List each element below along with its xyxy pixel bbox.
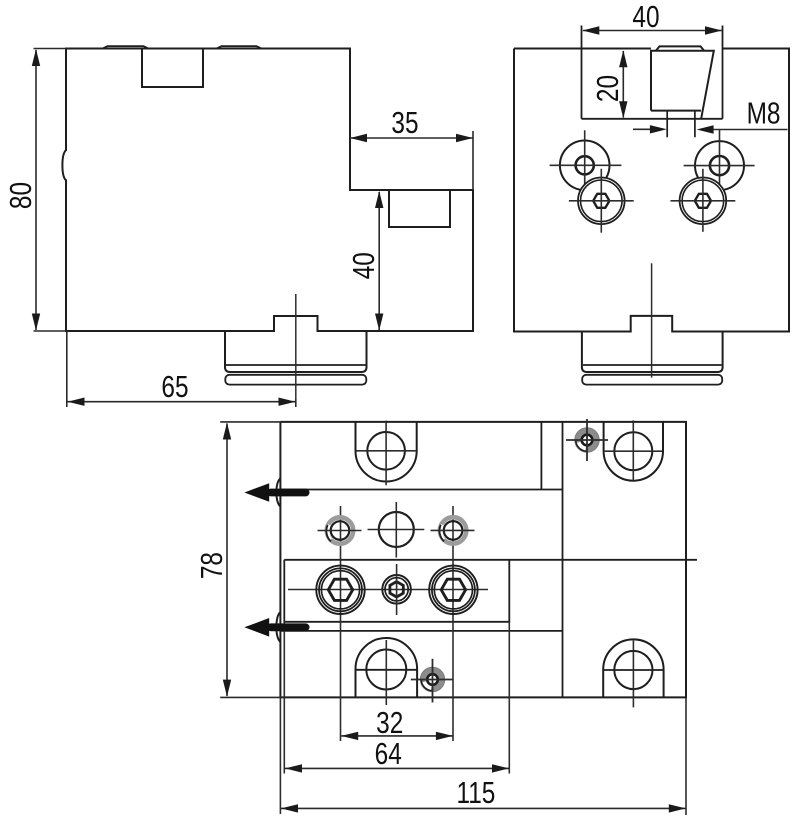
M8 stud edges: [667, 111, 695, 138]
dimension 64: [285, 736, 509, 772]
dimension 40 (top of right view): [582, 0, 722, 35]
svg-text:40: 40: [346, 252, 380, 279]
dimension 35 (top right of left view): [350, 105, 473, 190]
body outline left view: [62, 49, 473, 332]
lower-left socket screw: [569, 169, 634, 233]
small port c3 (gray ring): [431, 517, 475, 543]
big port b2 (center): [382, 564, 411, 615]
right slot: [389, 190, 450, 227]
gray pin top: [566, 419, 608, 461]
gray pin bottom: [411, 659, 453, 703]
top gasket bump 2: [217, 46, 261, 48]
dimension 32: [341, 705, 453, 740]
svg-text:80: 80: [3, 182, 37, 209]
svg-text:35: 35: [391, 105, 418, 139]
dimension 20 (coil depth): [590, 50, 627, 118]
coil cap: [656, 46, 704, 50]
svg-text:40: 40: [632, 0, 659, 34]
solenoid pocket left wall: [581, 26, 583, 119]
coil body: [651, 51, 714, 119]
dimension 78: [194, 422, 280, 698]
big port b1: [316, 566, 364, 614]
inner vertical full: [562, 422, 564, 698]
small port c1 (gray ring): [318, 517, 362, 543]
upper-right port circle: [684, 130, 755, 201]
bottom view outer rectangle: [276, 422, 686, 698]
center band: [284, 560, 509, 622]
lower-right socket screw: [671, 169, 736, 232]
centerline: [295, 294, 297, 399]
upper-left port circle: [550, 130, 622, 200]
boss bottom cap right: [582, 375, 722, 385]
dimension 40 (left view right): [346, 191, 383, 331]
bottom-center arch boss: [356, 638, 418, 705]
dimension 80 (left): [3, 49, 66, 332]
svg-text:32: 32: [376, 705, 403, 739]
solenoid pocket floor: [582, 118, 723, 120]
top gasket bump 1: [103, 46, 148, 48]
svg-text:78: 78: [194, 552, 228, 579]
svg-text:64: 64: [375, 736, 402, 770]
boss bottom cap: [225, 375, 366, 385]
small port c2: [368, 502, 425, 558]
top-center mounting ear: [356, 421, 417, 486]
top-right mounting ear: [604, 420, 663, 480]
top notch: [142, 49, 203, 88]
bottom boss outline right: [582, 332, 723, 373]
svg-text:115: 115: [456, 775, 495, 809]
section line 2: [280, 630, 562, 632]
long extension/center lines bottom view: [280, 506, 686, 815]
bottom boss outline: [225, 331, 367, 372]
flow arrow 1: [244, 483, 309, 502]
section line 1: [280, 489, 562, 491]
svg-text:65: 65: [161, 369, 188, 403]
step vertical short: [540, 422, 542, 490]
hidden edge line through right section: [284, 559, 697, 561]
svg-text:20: 20: [590, 75, 624, 102]
centerline right view: [651, 263, 653, 377]
solenoid pocket right wall: [722, 26, 724, 119]
big port b3: [429, 566, 477, 614]
flow arrow 2: [244, 618, 309, 637]
boss groove line: [226, 364, 366, 366]
svg-text:M8: M8: [747, 96, 781, 130]
M8 leader and label: [633, 96, 788, 134]
dimension 115: [281, 775, 686, 812]
body outline right view: [514, 49, 789, 332]
bottom-right arch boss: [603, 639, 663, 707]
boss groove line right: [583, 364, 722, 366]
dimension 65 (bottom of left view): [67, 331, 296, 407]
